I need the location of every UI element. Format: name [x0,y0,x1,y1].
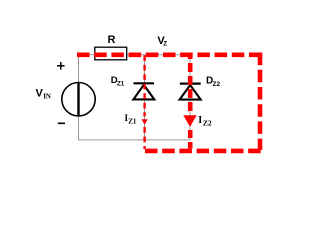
wire left vertical lower [78,116,80,141]
voltage source bar [77,83,79,116]
svg-text:I: I [198,115,202,126]
minus sign [58,122,65,124]
zener diode DZ1 triangle [133,85,154,100]
arrow IZ1 [142,119,148,124]
wire left vertical upper [78,55,80,83]
plus sign [57,65,65,67]
svg-text:Z2: Z2 [213,81,221,88]
zener diode DZ2 cathode bar [180,82,201,84]
svg-text:Z2: Z2 [203,119,212,128]
red dashed thin continuation below IZ1 arrow [143,127,145,149]
red dashed right vertical return [258,53,263,150]
red dashed bottom return line [145,149,262,154]
voltage source VIN circle [62,83,95,116]
svg-text:Z: Z [163,40,167,47]
red dashed thick continuation below IZ2 arrow [188,130,193,149]
wire DZ1 branch vertical [144,55,146,140]
wire bottom horizontal [78,139,191,141]
wire DZ2 branch vertical [189,55,191,140]
resistor R box [95,47,127,60]
zener diode DZ2 triangle [180,85,201,100]
svg-text:IN: IN [43,93,51,101]
wire top horizontal [79,54,191,56]
svg-text:Z1: Z1 [117,80,125,87]
red dashed current path: top line through R [77,52,262,57]
zener diode DZ1 cathode bar [134,82,155,84]
svg-text:Z1: Z1 [128,117,137,125]
arrow IZ2 (big) [183,115,196,127]
red dashed thin branch through DZ1 [143,55,145,116]
svg-text:R: R [108,34,116,46]
red dashed thick branch through DZ2 [188,55,193,114]
